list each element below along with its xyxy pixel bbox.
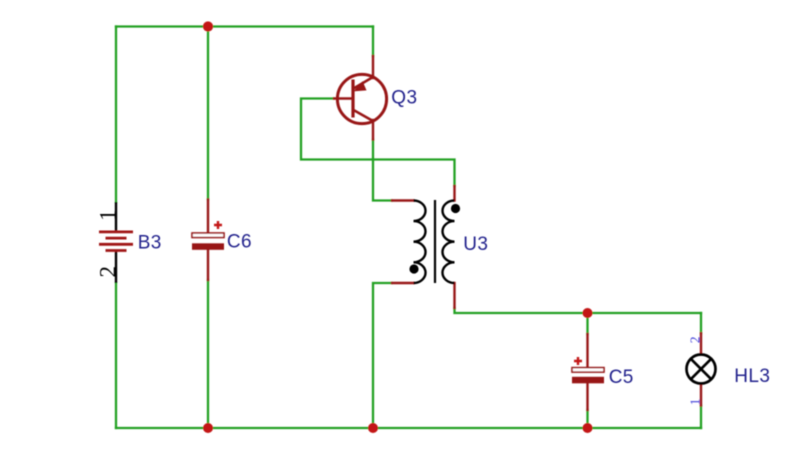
svg-text:Q3: Q3 xyxy=(391,87,417,108)
svg-text:2: 2 xyxy=(687,336,702,343)
svg-text:U3: U3 xyxy=(463,234,488,255)
svg-text:1: 1 xyxy=(687,399,702,406)
svg-text:2: 2 xyxy=(96,266,121,278)
svg-text:C6: C6 xyxy=(227,232,252,253)
svg-text:B3: B3 xyxy=(138,232,162,253)
svg-text:1: 1 xyxy=(96,210,121,222)
svg-text:HL3: HL3 xyxy=(734,366,770,387)
svg-text:C5: C5 xyxy=(609,367,634,388)
